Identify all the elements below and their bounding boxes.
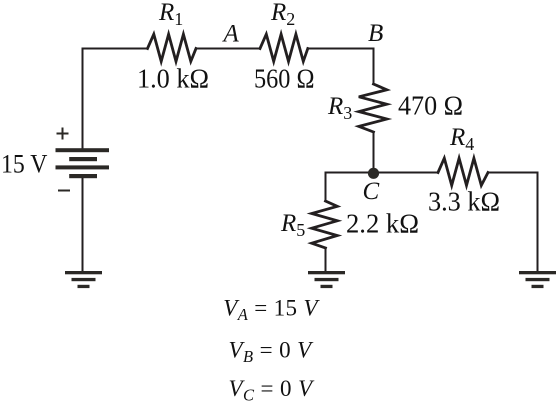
- svg-text:VA = 15 V: VA = 15 V: [223, 295, 320, 324]
- resistor R4: [438, 158, 488, 185]
- svg-text:1.0 kΩ: 1.0 kΩ: [137, 64, 209, 94]
- wire node C rail left to R5 branch: [326, 173, 374, 202]
- svg-text:B: B: [368, 20, 383, 47]
- svg-text:R1: R1: [158, 0, 183, 29]
- wire R2 to node B corner: [308, 49, 374, 85]
- wire R5 to ground: [325, 248, 327, 271]
- resistor R2: [260, 34, 308, 61]
- svg-text:R4: R4: [449, 124, 474, 154]
- resistor R3: [359, 84, 387, 132]
- svg-text:VB = 0 V: VB = 0 V: [229, 338, 315, 367]
- resistor R5: [312, 201, 338, 248]
- svg-text:A: A: [222, 21, 240, 48]
- svg-text:560 Ω: 560 Ω: [254, 64, 315, 94]
- svg-text:VC = 0 V: VC = 0 V: [229, 376, 316, 405]
- wire node A (R1 to R2): [196, 48, 260, 50]
- svg-text:3.3 kΩ: 3.3 kΩ: [428, 187, 500, 217]
- svg-text:R2: R2: [270, 0, 295, 29]
- resistor R1: [148, 34, 197, 61]
- minus polarity mark: [58, 190, 70, 192]
- ground (middle): [308, 271, 345, 288]
- wire node C to R4: [374, 172, 439, 174]
- ground (right): [519, 271, 556, 288]
- plus polarity mark: [57, 128, 69, 140]
- svg-text:R5: R5: [280, 210, 305, 240]
- wire battery negative to ground: [82, 177, 84, 271]
- wire R4 to right ground drop: [488, 173, 538, 272]
- svg-text:2.2 kΩ: 2.2 kΩ: [346, 209, 419, 239]
- svg-text:15 V: 15 V: [1, 150, 48, 179]
- ground (left): [65, 271, 102, 288]
- wire battery positive to R1: [83, 49, 148, 149]
- svg-text:C: C: [363, 178, 380, 205]
- svg-text:R3: R3: [327, 93, 352, 123]
- svg-text:470 Ω: 470 Ω: [398, 91, 463, 121]
- battery V1 (15 V source): [56, 148, 110, 178]
- wire R3 to node C: [373, 132, 375, 173]
- node C junction dot: [368, 168, 379, 179]
